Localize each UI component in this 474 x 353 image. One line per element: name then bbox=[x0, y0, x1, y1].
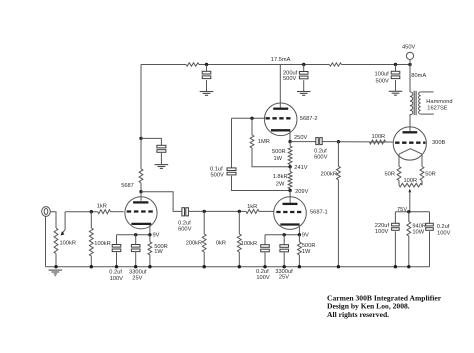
pot wiper (input) bbox=[63, 212, 66, 233]
svg-text:100kR: 100kR bbox=[94, 241, 110, 247]
resistor 100kR grid leak (input) bbox=[90, 212, 92, 228]
node junction dot (9V 5687-1) bbox=[298, 233, 301, 236]
svg-text:500V: 500V bbox=[283, 76, 296, 82]
wire 5687-1 cathode leg bbox=[298, 226, 300, 235]
wire grid drop to 0.1uf bbox=[231, 118, 233, 167]
tube 5687 envelope bbox=[125, 197, 157, 229]
wire 3300uf to rail (5687-1) bbox=[283, 252, 285, 266]
resistor 200kR (grid network) bbox=[203, 211, 205, 234]
node junction dot (450V) bbox=[408, 63, 411, 66]
svg-text:5687-1: 5687-1 bbox=[310, 209, 328, 215]
svg-text:220uf: 220uf bbox=[375, 223, 390, 229]
ground (stage1 decoupling) bbox=[155, 164, 169, 166]
ground (chassis, input) bbox=[49, 269, 63, 271]
svg-text:100R: 100R bbox=[404, 178, 418, 184]
wire 5687-2 plate feed bbox=[279, 65, 281, 108]
capacitor 200uf 500V bbox=[299, 72, 308, 75]
node rail dot (3300uf 5687-1) bbox=[283, 265, 286, 268]
wire 1MR upper lead bbox=[251, 118, 253, 135]
svg-text:250V: 250V bbox=[294, 135, 307, 141]
resistor filter (top rail right) bbox=[329, 63, 341, 66]
ground (100uf) bbox=[389, 90, 403, 92]
capacitor C_a (unlabeled filter) bbox=[202, 71, 211, 74]
wire 0.2uf to rail (5687-1) bbox=[264, 252, 266, 266]
wire stage1 plate lead bbox=[140, 192, 142, 201]
svg-text:200kR: 200kR bbox=[186, 241, 202, 247]
wire 500R to 241V bbox=[289, 165, 291, 167]
wire decoupling cap to ground bbox=[160, 153, 162, 164]
svg-text:500V: 500V bbox=[376, 79, 389, 85]
wire 5687-2 grid lead bbox=[232, 117, 265, 119]
wire pot bottom to rail bbox=[55, 254, 57, 267]
svg-text:100kR: 100kR bbox=[241, 241, 257, 247]
svg-text:50R: 50R bbox=[425, 171, 435, 177]
node rail dot (100kR) bbox=[238, 265, 241, 268]
transformer T1 secondary winding bbox=[419, 92, 421, 114]
svg-text:100uf: 100uf bbox=[375, 72, 390, 78]
wire cap C_a to ground bbox=[206, 80, 208, 91]
svg-text:0.2uf: 0.2uf bbox=[314, 148, 327, 154]
node rail dot (200kR 300B) bbox=[337, 265, 340, 268]
svg-text:100V: 100V bbox=[375, 229, 388, 235]
resistor 200kR grid leak bbox=[337, 166, 341, 180]
wire 209V to 5687-1 plate bbox=[289, 191, 291, 204]
capacitor 100uf 500V bbox=[391, 71, 400, 74]
node junction dot (9V tube1) bbox=[148, 233, 151, 236]
svg-text:0.2uf: 0.2uf bbox=[109, 270, 122, 276]
svg-text:1MR: 1MR bbox=[258, 139, 270, 145]
node rail dot (0.2uf t1) bbox=[115, 265, 118, 268]
capacitor 0.2uf 600V (upper coupling) bbox=[316, 138, 319, 145]
node rail dot (3300uf t1) bbox=[134, 265, 137, 268]
node junction dot (209V) bbox=[288, 189, 291, 192]
wire 200uf lead bbox=[303, 65, 305, 72]
node junction dot (300B grid) bbox=[337, 140, 340, 143]
wire jack tip to pot top bbox=[50, 212, 56, 228]
node junction dot (grid leak top) bbox=[90, 210, 93, 213]
node rail dot (220uf) bbox=[394, 265, 397, 268]
wire 300B filament leg right bbox=[421, 154, 423, 166]
svg-text:9V: 9V bbox=[153, 233, 160, 239]
wire 200uf to ground bbox=[303, 80, 305, 91]
svg-text:25V: 25V bbox=[132, 275, 142, 281]
resistor 100R grid stopper bbox=[370, 140, 386, 144]
wire 5687 cathode leg bbox=[149, 225, 151, 235]
wire ground rail bbox=[46, 266, 430, 268]
svg-text:1kR: 1kR bbox=[247, 204, 257, 210]
wire 100uf lead bbox=[395, 65, 397, 72]
svg-text:10W: 10W bbox=[412, 230, 424, 236]
tube 5687-1 cathode bbox=[280, 223, 299, 225]
node rail dot (940R) bbox=[407, 265, 410, 268]
svg-text:0kR: 0kR bbox=[216, 241, 226, 247]
capacitor 0.2uf 100V (tube1) bbox=[112, 245, 121, 248]
svg-text:100V: 100V bbox=[256, 275, 269, 281]
wire decoupling branch bbox=[141, 138, 161, 145]
wire coupling cap to 300B grid node bbox=[323, 141, 339, 143]
svg-text:0.1uf: 0.1uf bbox=[210, 166, 223, 172]
ground (200uf) bbox=[297, 91, 311, 93]
node junction dot (241V) bbox=[288, 165, 291, 168]
input jack J1 bbox=[42, 207, 51, 217]
wire 250V to 500R bbox=[289, 142, 291, 147]
wire cap C_a lead bbox=[206, 65, 208, 72]
node rail dot (pot) bbox=[54, 265, 57, 268]
potentiometer 100kR volume bbox=[54, 228, 58, 254]
wire 450V to transformer primary bbox=[409, 65, 411, 92]
wire 9V node (tube1) bbox=[117, 234, 150, 236]
wire 100R to node bbox=[338, 141, 369, 143]
node junction dot (3300uf 5687-1) bbox=[283, 233, 286, 236]
resistor 50R right bbox=[420, 167, 424, 181]
node junction dot (100kR top) bbox=[238, 210, 241, 213]
svg-text:100V: 100V bbox=[437, 230, 450, 236]
svg-text:Hammond: Hammond bbox=[426, 99, 452, 105]
wire 3300uf branch (5687-1) bbox=[283, 235, 285, 245]
svg-text:25V: 25V bbox=[279, 274, 289, 280]
svg-text:1W: 1W bbox=[274, 156, 283, 162]
svg-text:450V: 450V bbox=[402, 44, 415, 50]
node junction dot (1MR top) bbox=[250, 117, 253, 120]
capacitor 220uf 100V bbox=[392, 223, 400, 226]
svg-text:241V: 241V bbox=[294, 165, 307, 171]
svg-text:1W: 1W bbox=[302, 249, 311, 255]
svg-text:1.8kR: 1.8kR bbox=[273, 174, 288, 180]
wire stage1 plate to coupling cap bbox=[141, 192, 182, 212]
ground (cap C_a) bbox=[200, 91, 214, 93]
wire 200kR to ground rail bbox=[337, 180, 339, 267]
wire 5687-2 cathode leg bbox=[289, 131, 291, 141]
wire 0.2uf(75V) to rail bbox=[429, 231, 431, 266]
potentiometer 100R hum balance bbox=[399, 183, 422, 187]
node junction dot (100uf) bbox=[394, 63, 397, 66]
wire 0.2uf branch (5687-1) bbox=[264, 235, 266, 245]
wire B+ top rail segment 3 bbox=[341, 64, 410, 66]
tube 5687-2 plate bbox=[273, 108, 288, 110]
node junction dot (200kR top) bbox=[203, 210, 206, 213]
svg-text:5687: 5687 bbox=[121, 183, 134, 189]
wire 1kR to 5687-1 grid bbox=[259, 210, 274, 212]
wire 75V node rail bbox=[395, 211, 429, 213]
wire coupling cap to grid node bbox=[189, 210, 246, 212]
wire plate resistor to plate node bbox=[140, 183, 142, 192]
svg-text:200kR: 200kR bbox=[321, 171, 337, 177]
wire 0.2uf(75V) branch bbox=[429, 212, 431, 223]
svg-text:0.2uf: 0.2uf bbox=[437, 224, 450, 230]
svg-text:209V: 209V bbox=[295, 189, 308, 195]
capacitor 0.2uf 100V (75V node) bbox=[426, 223, 434, 226]
wire 220uf to rail bbox=[394, 231, 396, 266]
wire 220uf upper lead bbox=[394, 212, 396, 223]
tube 5687-1 grid bbox=[276, 211, 303, 213]
wire secondary top lead bbox=[421, 91, 434, 93]
node junction dot (stage1 decoupling) bbox=[139, 137, 142, 140]
wire 300B filament leg left bbox=[398, 154, 400, 166]
terminal 450V bbox=[406, 52, 413, 59]
node junction dot (filter cap C_a) bbox=[205, 63, 208, 66]
resistor 500R 1W (5687-1 cathode) bbox=[298, 235, 300, 242]
resistor stage1 plate load bbox=[139, 169, 143, 183]
tube 5687-1 plate bbox=[283, 203, 298, 205]
svg-text:50R: 50R bbox=[385, 171, 395, 177]
tube 5687-2 envelope bbox=[264, 103, 297, 136]
tube 5687 cathode bbox=[131, 223, 151, 225]
tube 5687 plate bbox=[133, 201, 148, 203]
tube 300B plate bbox=[403, 131, 418, 133]
svg-text:100V: 100V bbox=[110, 276, 123, 282]
wire 1.8kR to 209V bbox=[289, 189, 291, 191]
resistor 1.8kR 2W bbox=[288, 172, 292, 189]
wire to plate resistor bbox=[140, 138, 142, 168]
pot wiper arrow bbox=[408, 189, 411, 193]
resistor 1MR bbox=[250, 135, 254, 148]
transformer T1 primary winding bbox=[410, 92, 413, 115]
wire 300B grid lead bbox=[370, 141, 394, 143]
capacitor 3300uf 25V (tube1) bbox=[131, 245, 140, 248]
tube 300B filament bbox=[399, 149, 422, 154]
resistor 940R 10W bbox=[408, 212, 410, 222]
resistor 1kR grid stopper (5687-1) bbox=[246, 209, 259, 213]
wire 241V to 1.8kR bbox=[289, 167, 291, 172]
wire top rail to stage1 bbox=[140, 65, 142, 139]
tube 5687-1 envelope bbox=[274, 197, 307, 230]
svg-text:600V: 600V bbox=[314, 155, 327, 161]
wire 200kR upper lead bbox=[337, 142, 339, 167]
capacitor 0.2uf 100V (5687-1) bbox=[261, 245, 270, 248]
wire 450V terminal lead bbox=[409, 60, 411, 65]
svg-text:5687-2: 5687-2 bbox=[300, 116, 318, 122]
svg-text:2W: 2W bbox=[276, 182, 285, 188]
svg-text:500R: 500R bbox=[272, 149, 286, 155]
tube 5687-2 grid bbox=[266, 117, 294, 119]
svg-text:17.5mA: 17.5mA bbox=[271, 57, 291, 63]
wire secondary bottom lead bbox=[421, 113, 434, 115]
wire B+ top rail segment 2 bbox=[199, 64, 329, 66]
node rail dot (grid leak) bbox=[90, 265, 93, 268]
wire 0.2uf branch (tube1) bbox=[116, 235, 118, 245]
node junction dot (stage1 plate) bbox=[139, 190, 142, 193]
wire jack sleeve to ground rail bbox=[45, 216, 47, 266]
wire B+ top rail segment 1 bbox=[141, 64, 186, 66]
tube 300B grid bbox=[395, 142, 425, 144]
node junction dot (75V/940R) bbox=[407, 210, 410, 213]
node junction dot (200uf) bbox=[302, 63, 305, 66]
tube 5687-2 cathode bbox=[271, 129, 290, 131]
resistor 500R 1W (tube1 cathode) bbox=[149, 235, 151, 242]
wire 250V to coupling cap bbox=[290, 141, 316, 143]
svg-text:100R: 100R bbox=[372, 134, 386, 140]
svg-text:600V: 600V bbox=[178, 226, 191, 232]
tube 300B envelope bbox=[393, 127, 426, 160]
tube 5687 grid bbox=[127, 210, 156, 212]
resistor dropping (top rail left) bbox=[186, 63, 199, 66]
resistor 1kR grid stopper (input) bbox=[98, 210, 111, 214]
capacitor 0.1uf 500V bbox=[227, 168, 236, 171]
svg-text:100kR: 100kR bbox=[60, 240, 76, 246]
svg-text:1627SE: 1627SE bbox=[427, 105, 447, 111]
wire 50R left to pot bbox=[398, 181, 400, 186]
node junction dot (3300uf tube1) bbox=[134, 233, 137, 236]
wire 1MR to 241V node bbox=[252, 148, 290, 167]
node rail dot (500R t1) bbox=[148, 265, 151, 268]
capacitor 3300uf 25V (5687-1) bbox=[280, 245, 289, 248]
wire 50R right to pot bbox=[421, 181, 423, 186]
wire 0.2uf to rail (tube1) bbox=[116, 252, 118, 267]
svg-text:300B: 300B bbox=[432, 140, 445, 146]
svg-text:940R: 940R bbox=[412, 223, 426, 229]
svg-text:1kR: 1kR bbox=[97, 204, 107, 210]
svg-text:500V: 500V bbox=[211, 173, 224, 179]
svg-text:All rights reserved.: All rights reserved. bbox=[327, 310, 389, 319]
wire 1kR to 5687 grid bbox=[111, 211, 124, 213]
transformer T1 core bbox=[413, 91, 415, 115]
capacitor 0.2uf 600V (interstage) bbox=[182, 208, 185, 216]
resistor 50R left bbox=[397, 167, 401, 181]
node rail dot (500R 5687-1) bbox=[298, 265, 301, 268]
svg-text:1W: 1W bbox=[154, 249, 163, 255]
wire 3300uf branch (tube1) bbox=[135, 235, 137, 245]
wire 9V node (5687-1) bbox=[265, 234, 299, 236]
resistor 100kR (grid network) bbox=[238, 211, 240, 234]
wire 0.1uf to 209V node bbox=[232, 176, 291, 191]
resistor 500R 1W (SRPP) bbox=[288, 146, 292, 164]
svg-text:9V: 9V bbox=[302, 233, 309, 239]
node rail dot (200kR) bbox=[203, 265, 206, 268]
capacitor decoupling (stage1) bbox=[157, 145, 166, 148]
svg-text:80mA: 80mA bbox=[411, 73, 426, 79]
node junction dot (250V) bbox=[288, 140, 291, 143]
wire primary to 300B plate bbox=[409, 114, 411, 132]
wire 3300uf to rail (tube1) bbox=[135, 252, 137, 267]
wire 100uf to ground bbox=[395, 80, 397, 91]
node rail dot (0.2uf 5687-1) bbox=[263, 265, 266, 268]
wire wiper to 1kR bbox=[65, 211, 98, 213]
